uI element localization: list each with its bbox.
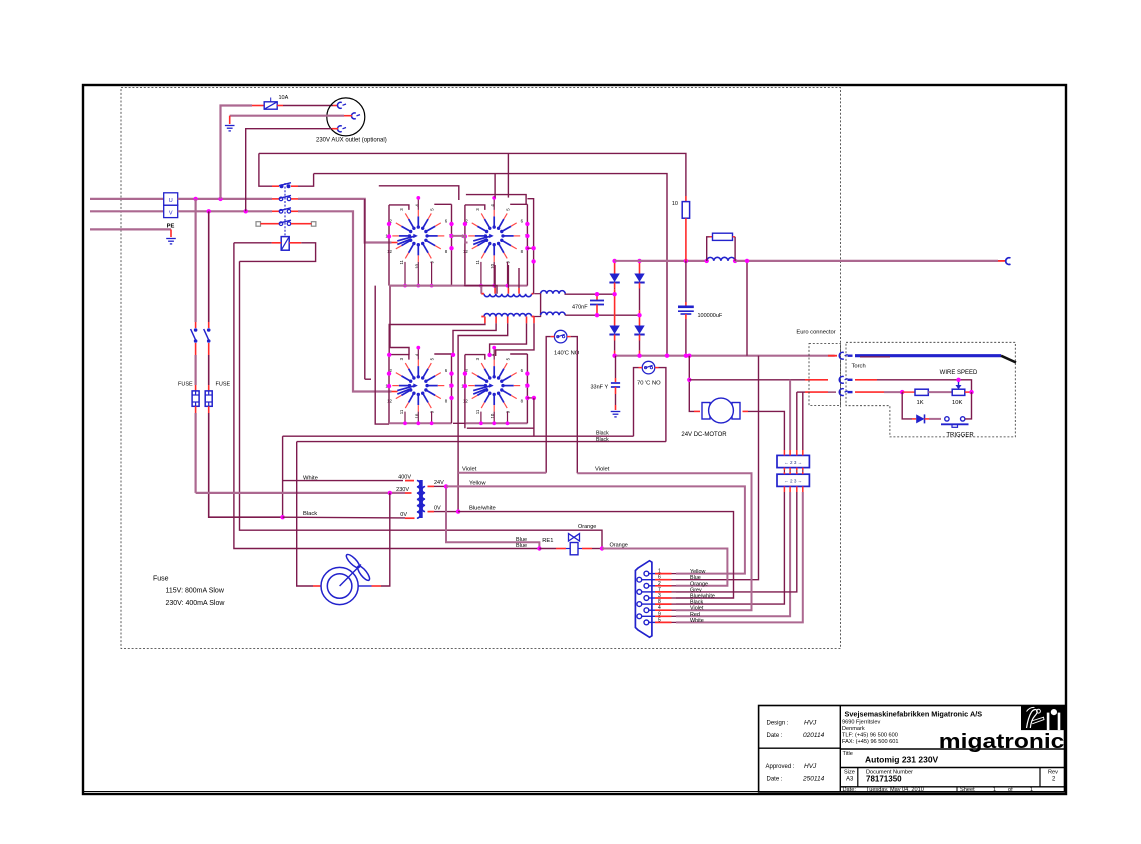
wire 70C right [659, 368, 666, 442]
label Approved [766, 764, 795, 770]
wire s1-s2 top link [379, 186, 459, 200]
wire S2 botpin [507, 262, 509, 286]
connector euro pin tip [848, 379, 853, 381]
wire S4 box bottom [465, 422, 528, 424]
wire box mid [783, 470, 785, 472]
wire pole1 right [291, 185, 298, 187]
wire black1 left down [282, 436, 284, 517]
svg-text:11: 11 [475, 259, 480, 264]
wire res10 top [685, 196, 687, 202]
titleblock hline date [840, 786, 1064, 788]
wire violet right [577, 473, 751, 610]
wire S1 box left [388, 205, 390, 286]
label Orange right [610, 543, 628, 549]
svg-text:12: 12 [387, 399, 392, 404]
wire pole1 right up [298, 174, 314, 187]
svg-text:470nF: 470nF [572, 305, 588, 311]
wire outlet mid to ground [230, 115, 344, 117]
diode D2 [634, 261, 644, 315]
wire pin9 stub [655, 615, 672, 617]
wire choke bot out [565, 314, 639, 316]
label pin 1 [658, 569, 661, 575]
junction s2 p8 out [531, 246, 535, 250]
switch trigger [941, 417, 969, 428]
svg-text:Tuesday, May 04, 2010: Tuesday, May 04, 2010 [866, 787, 924, 793]
wire winding prim right stub [532, 293, 534, 295]
wire sec tap2 stub [495, 317, 497, 324]
transformer secondary [422, 487, 425, 512]
switch S fc2 [204, 328, 211, 343]
svg-text:3: 3 [658, 593, 661, 599]
svg-text:230V: 400mA Slow: 230V: 400mA Slow [166, 600, 226, 607]
wire S1 box bottom [389, 285, 452, 287]
wire 400V branch [283, 480, 403, 482]
label Rev [1048, 770, 1058, 776]
wire box stub mid1 [783, 468, 785, 470]
junction res10 bus [684, 259, 688, 263]
titleblock vline sheet [956, 787, 958, 792]
svg-text:Black: Black [303, 511, 317, 517]
wire box col4 up [802, 392, 804, 450]
thermal switch 140C [551, 330, 571, 343]
fuse F2 [205, 391, 212, 406]
junction neg D3 [612, 354, 616, 358]
wire trig left [902, 392, 912, 419]
label HVJ 2 [804, 763, 817, 770]
junction s3 topleft [387, 353, 391, 357]
wire 230V stub [405, 492, 412, 494]
svg-text:10A: 10A [279, 95, 289, 101]
wire pole2 right stub [291, 198, 298, 200]
svg-text:78171350: 78171350 [866, 775, 902, 784]
wire S3 box topleft [389, 355, 409, 360]
label pin 9 [658, 611, 661, 617]
wire sec tap4 stub [526, 317, 528, 324]
label pin 5 [658, 617, 661, 623]
wire s2 feed b [507, 153, 509, 197]
label Black 2 [596, 437, 609, 443]
junction D2 top [637, 259, 641, 263]
junction S4 p6 [525, 371, 529, 375]
wire coil left stub [272, 242, 282, 244]
label 10 [672, 201, 678, 207]
label 33nF [591, 385, 609, 391]
ground aux [225, 126, 235, 131]
label 470nF [572, 305, 588, 311]
wire black 0V [283, 516, 405, 519]
junction S2 botpin [479, 284, 483, 288]
svg-text:HVJ: HVJ [804, 720, 817, 727]
wire black1 [283, 435, 634, 437]
outlet circle 230V AUX [327, 98, 365, 136]
svg-text:White: White [690, 618, 704, 624]
label color Violet [690, 606, 704, 612]
wire s4 wiper feed [364, 199, 366, 379]
label Date 1 [767, 733, 783, 739]
thermal switch 70C [639, 361, 659, 374]
pin 7 D-sub [637, 590, 655, 595]
svg-text:TLF: (+45) 96 500 600: TLF: (+45) 96 500 600 [842, 733, 898, 739]
wire winding sec left stub [481, 316, 484, 318]
junction S1 botpin [430, 284, 434, 288]
wire 24V stub [428, 485, 435, 487]
wire S4 toppin4 [493, 348, 495, 360]
winding choke top [541, 291, 566, 294]
wire s2 bottom to winding [464, 286, 497, 294]
wire S4 botpin [480, 412, 482, 424]
wire box stub top [783, 450, 785, 455]
wire neg bus [615, 355, 835, 357]
label 140C NO [554, 351, 580, 357]
rotary switch S3 [385, 353, 451, 418]
wire pin1 lead [672, 573, 677, 575]
wire col white down [676, 492, 803, 622]
svg-text:FUSE: FUSE [178, 382, 193, 388]
diode D3 [609, 294, 619, 356]
junction 470nF bot [595, 313, 599, 317]
connector D-sub 9pin [635, 561, 652, 638]
svg-text:250114: 250114 [802, 776, 825, 783]
wire coil right stub [289, 242, 301, 244]
svg-text:PE: PE [167, 224, 175, 230]
wire S2 box left [464, 205, 466, 286]
junction S1 top4 [416, 196, 420, 200]
junction U-auxcol [218, 197, 222, 201]
junction S2 botpin [492, 284, 496, 288]
label Fuse note [153, 576, 169, 583]
wire s2 wiper feed [452, 236, 468, 243]
junction S3 p8 [449, 396, 453, 400]
wire torch cable end [1001, 356, 1016, 363]
wire box stub bot [796, 486, 798, 492]
label Date 2 [767, 777, 783, 783]
titleblock vline left [839, 706, 841, 792]
svg-text:Euro connector: Euro connector [796, 330, 835, 336]
label White [303, 476, 318, 482]
wire cap to negbus [685, 319, 687, 356]
wire sec tap3 [458, 323, 508, 511]
wire trig right [965, 392, 972, 419]
wire box stub mid2 [802, 472, 804, 474]
svg-text:Violet: Violet [595, 467, 610, 473]
contactor coil [281, 237, 289, 251]
wire s1 wiper stub [392, 242, 398, 244]
svg-text:Svejsemaskinefabrikken Migatro: Svejsemaskinefabrikken Migatronic A/S [845, 710, 983, 719]
junction V-fusecol [207, 209, 211, 213]
svg-text:33nF Y: 33nF Y [591, 385, 609, 391]
pot 10K [952, 381, 965, 395]
wire pin3 to 1K [902, 391, 915, 393]
wire pin5 stub [655, 621, 672, 623]
wire coil left [234, 242, 272, 244]
wire S1 botpin [417, 262, 419, 286]
junction S4 p2 [463, 371, 467, 375]
junction S1 p2 [387, 222, 391, 226]
wire S1 botpin [431, 262, 433, 286]
label color Blue [690, 575, 701, 581]
junction S1 botpin [416, 284, 420, 288]
junction RE1 out [600, 546, 604, 550]
junction S1 p6 [449, 222, 453, 226]
wire pin5 lead [672, 621, 677, 623]
wire pole4 right stub [291, 223, 298, 225]
junction S2 top4 [492, 196, 496, 200]
transformer core [419, 480, 422, 518]
svg-text:Date :: Date : [767, 777, 783, 783]
wire fusecol2 upper [208, 211, 210, 322]
wire fw loop right [734, 237, 736, 261]
wire prim tap1 stub [494, 288, 496, 294]
wire sec tap1 [389, 323, 485, 355]
fuse F1 [192, 391, 199, 406]
wire s2 pin feed3 [518, 268, 520, 288]
junction bluewhite [456, 509, 460, 513]
wire S3 box bottom [389, 422, 452, 424]
outlet contact bot [337, 126, 346, 132]
wire euro pin3 stub [805, 391, 828, 393]
wire coil right loop [240, 243, 316, 262]
wire 70C left [634, 368, 639, 437]
wire outlet bot stub [332, 128, 338, 130]
titleblock hline design [759, 747, 841, 749]
wire S3 botpin [431, 412, 433, 424]
svg-text:1: 1 [1030, 787, 1033, 793]
label Torch [852, 364, 866, 370]
svg-text:Approved :: Approved : [766, 764, 795, 770]
wire black2 [297, 441, 666, 443]
ground 33nF [611, 412, 621, 417]
wire input PE [90, 228, 171, 230]
label color Red [690, 612, 700, 618]
junction S2 p2 [463, 222, 467, 226]
wire fan stub r [372, 585, 382, 587]
wire 24V out [434, 485, 446, 487]
pin 1 D-sub [644, 571, 655, 576]
transformer primary [417, 481, 420, 519]
wire choke top out [565, 293, 614, 296]
svg-text:020114: 020114 [803, 732, 825, 739]
wire aux fuse stub [252, 105, 264, 107]
junction fan tap [388, 491, 392, 495]
junction S4 p7 [525, 383, 529, 387]
wire s4 wiper feed2 [365, 378, 371, 380]
svg-text:A3: A3 [846, 777, 854, 783]
label 100000uF [698, 313, 723, 319]
wire winding sec right stub [532, 316, 535, 318]
svg-text:Blue/white: Blue/white [469, 506, 496, 512]
wire pin2 stub [655, 585, 672, 587]
wire S2 box topleft [465, 205, 485, 210]
wire fw loop [707, 237, 713, 261]
wire box mid [802, 470, 804, 472]
svg-text:400V: 400V [398, 474, 411, 480]
label TRIGGER [946, 433, 974, 439]
pin 9 D-sub [637, 614, 655, 619]
wire fusecol1 stub2 [195, 343, 197, 355]
junction fw right [733, 259, 737, 263]
wire pole2 left stub [272, 198, 279, 200]
wire euro pin2 row [689, 379, 805, 381]
junction 0V black [280, 515, 284, 519]
wire RE1 stub r [582, 548, 592, 550]
junction S4 p8 [525, 396, 529, 400]
wire S3 botpin [404, 412, 406, 424]
label PE [167, 224, 175, 230]
wire pole3 out [298, 211, 392, 391]
label fuse 230V [166, 600, 226, 607]
wire s3 bottom out [375, 286, 389, 425]
label Violet left [462, 467, 477, 473]
svg-text:V: V [169, 211, 173, 217]
wire fusecol1 stub4 [195, 406, 197, 413]
wire 400V stub [405, 480, 414, 482]
wire res10 bottom [685, 218, 687, 261]
junction S3 p2 [387, 371, 391, 375]
label Design [767, 721, 789, 727]
label 10K [952, 400, 962, 406]
wire coil left down [234, 243, 540, 549]
junction bus link [745, 259, 749, 263]
svg-text:9: 9 [658, 611, 661, 617]
wire motor stub l [694, 410, 700, 412]
wire S4 botpin [493, 412, 495, 424]
frame outer border [83, 85, 1066, 794]
svg-text:Denmark: Denmark [842, 726, 865, 732]
wire torch cable [855, 354, 1001, 357]
label Yellow [469, 480, 486, 486]
junction S3 botpin [430, 421, 434, 425]
label color Yellow [690, 569, 705, 575]
junction S2 p6 [525, 222, 529, 226]
rotary switch S4 [461, 353, 527, 418]
wire s3-s4 link low [453, 423, 465, 428]
wire pole4 left stub [272, 223, 279, 225]
outlet contact top [337, 102, 346, 108]
wire S3 box topright [434, 353, 451, 355]
label 78171350 [866, 775, 902, 784]
fuse 10A [264, 98, 277, 110]
wire S2 toppin4 [493, 198, 495, 210]
switch S fc1 [191, 328, 198, 343]
wire s4 p8 out [527, 397, 534, 399]
wire pin7 stub [655, 591, 672, 593]
wire 470nF bot stub [596, 305, 598, 316]
wire S1 botpin [404, 262, 406, 286]
resistor 10 [682, 202, 689, 219]
junction S2 botpin [506, 284, 510, 288]
terminal sq pole4 left [256, 222, 261, 227]
label pin 8 [658, 599, 661, 605]
label DocNum [866, 770, 913, 776]
connector euro pin [839, 389, 847, 396]
terminal sq pole4 right [311, 222, 316, 227]
connector J1 [777, 455, 809, 467]
svg-text:← 2 3 →: ← 2 3 → [784, 479, 802, 484]
wire bus link down [746, 261, 748, 356]
resistor 1K [915, 389, 928, 395]
label sheet 1 [993, 787, 996, 793]
svg-text:Black: Black [596, 431, 609, 437]
svg-text:Blue: Blue [690, 575, 701, 581]
svg-text:12: 12 [463, 249, 468, 254]
wire fan left [297, 442, 313, 586]
junction D2 bot [637, 313, 641, 317]
wire pot right [965, 391, 972, 393]
svg-text:Date:: Date: [843, 787, 857, 793]
wire S4 box right [526, 354, 528, 423]
wire s2 pin feed2 [507, 265, 509, 288]
wire S3 toppin4 [417, 348, 419, 360]
wire pin4 stub [655, 609, 672, 611]
label 1K [917, 400, 924, 406]
wire motor neg to dsub [676, 356, 759, 580]
pin 2 D-sub [644, 583, 655, 588]
wire S2 box bottom [465, 285, 528, 287]
torch dashed outline [846, 342, 1015, 437]
wire RE1 out [592, 548, 602, 550]
company addr2 [842, 726, 865, 732]
wire fusecol2 stub2 [208, 343, 210, 355]
pin 3 D-sub [644, 596, 655, 601]
wire fusecol1 upper [195, 199, 197, 322]
junction S2 p1 [463, 234, 467, 238]
junction S2 p7 [525, 234, 529, 238]
fan M [321, 553, 371, 605]
label Title [843, 751, 853, 757]
wire S1 box right [451, 204, 453, 285]
wire torch pin2 stub [855, 379, 877, 381]
label Blue 1 [516, 537, 527, 543]
titleblock hline size [840, 767, 1064, 769]
svg-text:11: 11 [399, 409, 404, 414]
junction S1 p1 [387, 234, 391, 238]
wire bridge AC link [615, 260, 640, 262]
connector euro pin tip [848, 391, 853, 393]
pin 4 D-sub [644, 608, 655, 613]
wire fan right [381, 493, 390, 586]
wire fusecol1 mid [195, 355, 197, 385]
frame inner bottom line [84, 791, 1065, 793]
wire blue to RE1 [539, 548, 556, 550]
wire RE1 stub l [556, 548, 566, 550]
rotary switch S1 [385, 204, 451, 269]
wire pole1 left up [259, 153, 272, 186]
valve RE1 [566, 534, 582, 555]
svg-text:230V AUX outlet (optional): 230V AUX outlet (optional) [316, 138, 387, 144]
svg-text:FAX: (+45) 96 500 601: FAX: (+45) 96 500 601 [842, 739, 898, 745]
wire input U [90, 198, 164, 200]
wire box stub mid2 [796, 472, 798, 474]
wire box col2 up [789, 380, 791, 450]
wire euro pin2 stub [805, 379, 828, 381]
junction S4 botpin [506, 421, 510, 425]
svg-text:U: U [169, 198, 173, 204]
wire trig diode stub [912, 418, 916, 420]
wire s2 p8 out [527, 247, 533, 249]
title Automig [865, 755, 939, 765]
junction neg D4 [637, 354, 641, 358]
wire s3 top in [390, 286, 409, 355]
svg-text:2: 2 [658, 581, 661, 587]
wire top bus 2 [314, 174, 667, 356]
wire outlet bot to V [246, 129, 332, 212]
wire S4 box left [464, 355, 466, 424]
junction S2 p8 [525, 246, 529, 250]
wire motor stub r [743, 410, 749, 412]
wire V to contactor [178, 210, 272, 212]
wire choke pair link [540, 294, 542, 316]
svg-text:6: 6 [658, 575, 661, 581]
